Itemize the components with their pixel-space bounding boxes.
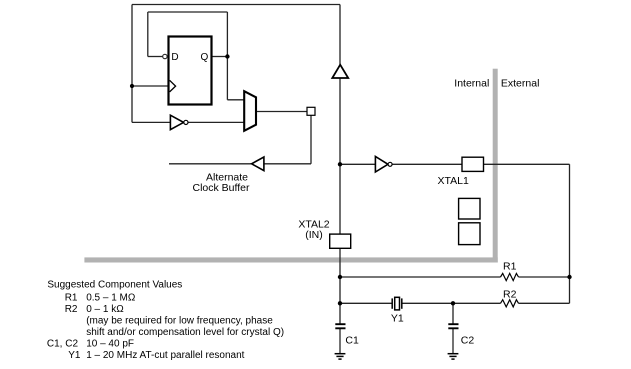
svg-text:0.5 – 1 MΩ: 0.5 – 1 MΩ [86,293,136,304]
svg-text:R1: R1 [65,293,78,304]
wire feedback left vertical [147,12,149,57]
node clock bus junction [130,84,134,88]
svg-text:Y1: Y1 [391,312,404,324]
inverter U2 (XTAL1 driver) [375,156,392,172]
node R1 left junction [338,275,342,279]
mux U4 [244,91,256,131]
wire pad to clock buffer [264,163,311,165]
label XTAL2 (IN) [298,219,329,241]
ground (C2) [448,354,459,359]
resistor R1 [501,273,519,280]
node XTAL2 inverter junction [338,162,342,166]
wire inverter U2 to XTAL1 [392,163,462,165]
wire clock input to flip-flop [132,85,168,87]
svg-text:XTAL1: XTAL1 [438,175,469,187]
svg-text:C2: C2 [461,334,475,346]
node R1 right junction [567,275,571,279]
pin D input bubble [163,54,167,58]
wire mux upper input [227,99,244,101]
inverter U3 (clock divider input) [170,115,188,129]
svg-text:(IN): (IN) [305,229,323,241]
wire mux output [256,111,307,113]
svg-text:1 – 20 MHz AT-cut parallel res: 1 – 20 MHz AT-cut parallel resonant [86,350,244,361]
wire top feedback bus [132,4,340,6]
wire R1 row left [340,276,501,278]
wire Q feedback top [148,11,228,13]
svg-text:0 – 1 kΩ: 0 – 1 kΩ [86,304,124,315]
ground (C1) [335,354,346,359]
svg-text:R2: R2 [503,289,517,301]
wire R2 row right [519,302,570,304]
svg-text:shift and/or compensation leve: shift and/or compensation level for crys… [86,327,284,338]
svg-text:Internal: Internal [454,78,489,90]
wire Q output [213,56,228,58]
capacitor C2 [448,324,458,353]
svg-text:Q: Q [201,52,209,63]
svg-text:10 – 40 pF: 10 – 40 pF [86,339,134,350]
svg-text:C1: C1 [345,334,359,346]
wire clock buffer output [169,163,252,165]
pad (mux output square) [307,107,315,115]
XTAL1 pin box [462,157,484,171]
svg-text:Suggested Component Values: Suggested Component Values [47,280,182,291]
spare pad square lower [459,223,480,245]
crystal Y1 [392,297,402,310]
svg-text:(may be required for low frequ: (may be required for low frequency, phas… [86,316,273,327]
spare pad square upper [459,198,480,219]
node C2 junction [451,301,455,305]
wire Q to mux vertical [226,12,228,100]
note suggested component values [47,280,284,362]
node Q output junction [225,54,229,58]
resistor R2 [501,300,519,307]
flip-flop U1 [169,37,212,105]
wire pad down [310,115,312,164]
svg-text:Y1: Y1 [68,350,81,361]
wire oscillator main vertical [339,78,341,234]
node R2 left junction [338,301,342,305]
wire inverter input [132,121,170,123]
wire inverter output to mux [188,121,244,123]
wire oscillator top vertical [339,5,341,65]
svg-text:D: D [171,52,178,63]
buffer U6 (oscillator amplifier, pointing up) [332,65,348,78]
svg-text:C1, C2: C1, C2 [47,339,79,350]
wire XTAL2 down [339,248,341,324]
wire left vertical clock bus [131,5,133,123]
wire R2 row to crystal [340,302,392,304]
wire external right vertical [569,164,571,303]
svg-text:External: External [501,78,540,90]
svg-text:R2: R2 [65,304,78,315]
wire into D input bubble [148,56,163,58]
wire node to inverter U2 [340,163,375,165]
svg-text:Clock Buffer: Clock Buffer [193,182,250,194]
wire XTAL1 to external [484,163,570,165]
buffer U5 alternate clock buffer [252,157,264,171]
wire C2 down [452,303,454,324]
wire crystal to R2 [402,302,501,304]
XTAL2 pin box [330,234,351,248]
capacitor C1 [335,324,345,353]
internal/external separator gray line [84,69,497,263]
wire R1 row right [519,276,570,278]
svg-text:R1: R1 [503,260,517,272]
label alternate clock buffer [193,171,250,194]
